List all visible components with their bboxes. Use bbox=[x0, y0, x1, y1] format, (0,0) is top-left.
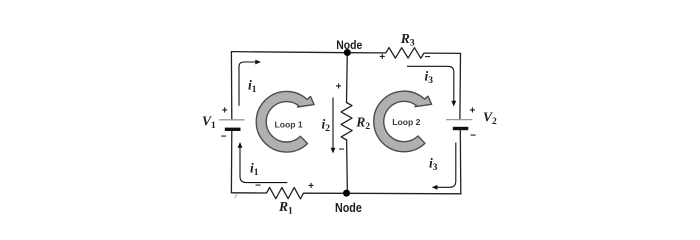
current arrow i3 top bbox=[407, 66, 454, 102]
wire right rail upper bbox=[459, 53, 462, 119]
svg-text:+: + bbox=[379, 52, 385, 63]
svg-text:Node: Node bbox=[335, 200, 362, 215]
resistor R3 bbox=[386, 48, 424, 59]
wire top from V1 to node and R3 to right corner bbox=[231, 48, 460, 199]
svg-text:i1: i1 bbox=[248, 78, 257, 96]
svg-text:+: + bbox=[308, 181, 314, 192]
svg-text:Loop 2: Loop 2 bbox=[392, 117, 420, 127]
svg-text:V2: V2 bbox=[483, 110, 497, 128]
svg-text:−: − bbox=[255, 181, 261, 192]
wire top-left segment bbox=[231, 52, 385, 53]
loop arrow Loop 2 bbox=[374, 91, 432, 152]
svg-text:V1: V1 bbox=[202, 114, 216, 132]
resistor R2 bbox=[341, 103, 352, 141]
wire left rail lower bbox=[230, 129, 232, 192]
wire top-right segment bbox=[424, 52, 461, 54]
current arrow i1 bottom bbox=[240, 147, 287, 183]
svg-text:R2: R2 bbox=[355, 115, 370, 133]
resistor R1 bbox=[267, 187, 304, 198]
svg-text:i3: i3 bbox=[425, 69, 434, 87]
wire bottom left segment bbox=[231, 192, 266, 194]
battery V1 plus plate bbox=[219, 119, 244, 121]
svg-text:R3: R3 bbox=[400, 31, 415, 49]
svg-text:+: + bbox=[222, 106, 228, 117]
svg-text:i1: i1 bbox=[250, 161, 259, 179]
svg-text:−: − bbox=[339, 145, 345, 156]
svg-text:−: − bbox=[221, 132, 227, 143]
battery V2 minus plate bbox=[453, 127, 469, 130]
loop arrow Loop 1 bbox=[256, 91, 314, 152]
wire right rail lower bbox=[459, 129, 462, 194]
svg-text:Node: Node bbox=[336, 38, 362, 52]
wire middle branch upper bbox=[346, 53, 349, 103]
svg-text:Loop 1: Loop 1 bbox=[275, 119, 303, 129]
svg-text:+: + bbox=[336, 82, 342, 93]
wire middle branch lower bbox=[346, 140, 349, 193]
current arrow i2 bbox=[332, 98, 334, 150]
svg-text:i3: i3 bbox=[429, 156, 438, 174]
wire bottom right segment bbox=[304, 192, 461, 195]
svg-text:+: + bbox=[469, 106, 475, 117]
svg-text:R1: R1 bbox=[278, 199, 293, 217]
svg-text:−: − bbox=[470, 131, 476, 142]
node dot top bbox=[344, 49, 351, 56]
node dot bottom bbox=[343, 190, 350, 197]
stray tick below bottom-left corner bbox=[235, 194, 237, 198]
wire left rail upper bbox=[230, 52, 232, 120]
svg-text:i2: i2 bbox=[322, 117, 331, 135]
current arrow i3 bottom bbox=[436, 143, 456, 188]
current arrow i1 top bbox=[239, 62, 257, 106]
battery V1 minus plate bbox=[225, 128, 241, 131]
battery V2 plus plate bbox=[446, 119, 472, 121]
svg-text:−: − bbox=[425, 52, 431, 63]
